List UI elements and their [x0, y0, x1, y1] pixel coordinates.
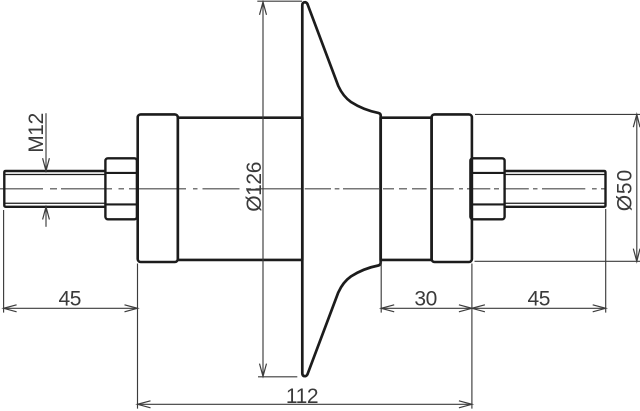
centerline — [0, 188, 606, 190]
45 right dimension line — [472, 307, 606, 309]
30 arrowheads — [381, 305, 394, 312]
dia126 bottom arrow — [260, 364, 267, 377]
left rod thread minor lines — [5, 175, 106, 204]
dia50 top arrow — [633, 114, 640, 127]
dia50 bottom arrow — [633, 249, 640, 262]
svg-text:112: 112 — [286, 385, 318, 408]
extension line left flange face — [137, 264, 139, 409]
112 arrowheads — [138, 401, 151, 408]
left threaded rod major outline — [4, 171, 105, 207]
right hex nut — [470, 158, 504, 219]
45 right arrowheads — [472, 305, 485, 312]
right flange — [432, 114, 472, 262]
dia126 bottom extension line — [258, 376, 297, 378]
right threaded rod major outline — [505, 171, 606, 207]
extension line right flange face — [471, 264, 473, 409]
left body section — [178, 118, 302, 260]
extension line rod left end — [3, 210, 5, 313]
right nut facet lines — [471, 173, 505, 205]
M12 upper arrow — [43, 158, 50, 171]
left hex nut — [105, 158, 136, 219]
middle body section — [381, 118, 432, 260]
svg-text:M12: M12 — [25, 113, 48, 153]
left flange — [138, 114, 178, 262]
svg-text:Ø50: Ø50 — [614, 169, 637, 211]
M12 lower arrow — [43, 207, 50, 220]
dia126 top arrow — [260, 2, 267, 15]
M12 dimension line lower segment — [45, 207, 47, 227]
extension line bell right face — [380, 262, 382, 313]
dia126 top extension line — [257, 0, 302, 2]
dia50 top extension line — [475, 113, 640, 115]
left nut facet lines — [106, 173, 137, 205]
svg-text:45: 45 — [528, 288, 551, 311]
svg-text:Ø126: Ø126 — [243, 162, 266, 212]
45 left dimension line — [4, 307, 138, 309]
svg-text:45: 45 — [59, 288, 82, 311]
right rod thread minor lines — [505, 175, 605, 204]
dia50 bottom extension line — [475, 260, 640, 262]
svg-text:30: 30 — [414, 288, 437, 311]
bell shed profile — [302, 2, 380, 376]
112 dimension line — [138, 403, 472, 405]
dia126 dimension line — [262, 2, 264, 376]
30 dimension line — [381, 307, 472, 309]
45 left arrowheads — [4, 305, 17, 312]
dia50 dimension line — [636, 114, 638, 261]
extension line rod right end — [605, 209, 607, 313]
M12 dimension line upper segment — [45, 113, 47, 170]
